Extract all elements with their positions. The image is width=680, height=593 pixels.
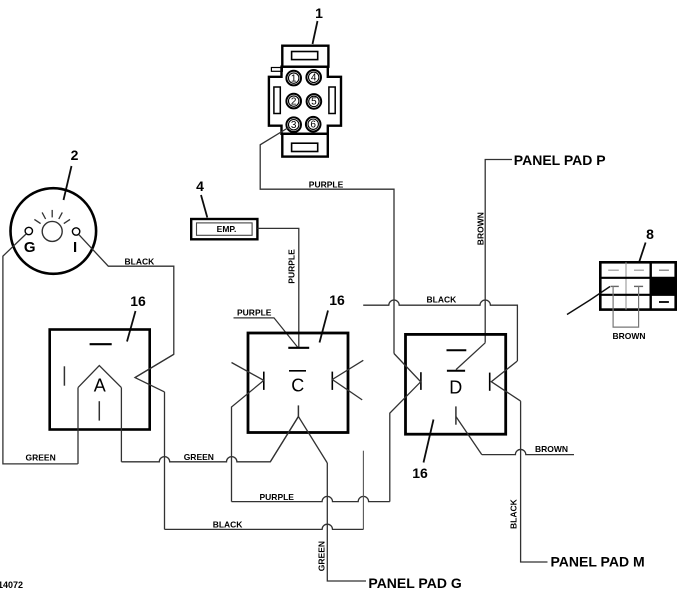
svg-text:1: 1 xyxy=(315,5,323,21)
leader to key switch xyxy=(64,166,72,200)
pin 6 xyxy=(306,117,321,132)
module A xyxy=(50,330,174,430)
wire PURPLE bottom rail xyxy=(232,496,390,501)
pin 5 xyxy=(307,94,322,109)
wire connector 8 brown U loop xyxy=(613,286,639,327)
svg-text:A: A xyxy=(94,376,106,396)
svg-text:D: D xyxy=(449,377,462,397)
terminal I xyxy=(72,228,79,235)
svg-text:16: 16 xyxy=(329,292,345,308)
wire BLACK bottom rail xyxy=(165,524,364,529)
svg-text:BLACK: BLACK xyxy=(427,295,458,305)
pin 2 xyxy=(286,94,301,109)
svg-text:I: I xyxy=(73,239,77,256)
svg-text:PURPLE: PURPLE xyxy=(309,180,344,190)
wire I terminal to module A (black) xyxy=(79,235,174,378)
wire module D left arrow xyxy=(390,354,421,502)
svg-text:BLACK: BLACK xyxy=(125,257,156,267)
pin 4 xyxy=(306,70,321,85)
svg-text:4: 4 xyxy=(311,73,317,84)
wire GREEN right rail xyxy=(121,417,298,462)
svg-text:PANEL PAD G: PANEL PAD G xyxy=(368,575,461,591)
svg-text:2: 2 xyxy=(71,147,79,163)
svg-text:6: 6 xyxy=(310,119,316,130)
node PANEL PAD P xyxy=(485,160,512,343)
leader purple label to C top pin xyxy=(234,318,299,348)
svg-text:G: G xyxy=(24,239,36,256)
leader to module D xyxy=(424,420,434,463)
leader to connector 1 xyxy=(313,21,318,44)
leader to module A xyxy=(127,311,136,342)
svg-text:5: 5 xyxy=(311,97,317,108)
svg-text:BROWN: BROWN xyxy=(476,212,486,245)
wire module C left arrow xyxy=(232,363,264,502)
pin 3 xyxy=(286,117,301,132)
wire module C bottom legs xyxy=(270,417,327,464)
module D xyxy=(406,334,506,434)
svg-text:EMP.: EMP. xyxy=(217,224,237,234)
svg-text:PURPLE: PURPLE xyxy=(237,307,272,317)
node PANEL PAD G wire xyxy=(327,463,366,581)
svg-text:BLACK: BLACK xyxy=(213,520,244,530)
leader to EMP xyxy=(201,195,207,218)
svg-text:C: C xyxy=(291,375,304,395)
svg-text:16: 16 xyxy=(130,293,146,309)
connector U1 (6-pin) xyxy=(269,46,341,157)
svg-text:GREEN: GREEN xyxy=(26,453,56,463)
svg-text:8: 8 xyxy=(646,226,654,242)
module C xyxy=(248,333,348,433)
wire module D right arrow xyxy=(491,361,520,401)
EMP module U4 xyxy=(191,219,257,239)
svg-text:BROWN: BROWN xyxy=(535,444,568,454)
svg-text:2: 2 xyxy=(291,96,297,107)
svg-text:3: 3 xyxy=(291,120,297,131)
svg-text:4: 4 xyxy=(196,178,204,194)
wire EMP to module C (purple) xyxy=(257,228,298,347)
terminal G xyxy=(25,227,32,234)
node PANEL PAD M wire xyxy=(521,401,548,562)
pin 1 xyxy=(286,71,301,86)
svg-text:BROWN: BROWN xyxy=(613,331,646,341)
connector U8 (pad grid) xyxy=(600,262,675,309)
svg-text:BLACK: BLACK xyxy=(509,498,519,529)
wire connector pin3 to purple net xyxy=(260,128,394,354)
key switch S2 xyxy=(11,188,97,274)
wire G terminal to green rail xyxy=(3,234,78,464)
svg-text:GREEN: GREEN xyxy=(184,452,214,462)
svg-text:PURPLE: PURPLE xyxy=(287,249,297,284)
wire module D bottom pin to brown xyxy=(456,417,482,455)
wire black stub riser xyxy=(362,451,364,530)
svg-text:14072: 14072 xyxy=(0,580,23,590)
wire module A left leg xyxy=(77,388,79,464)
svg-text:GREEN: GREEN xyxy=(316,541,326,571)
wire BROWN rail xyxy=(482,449,574,454)
leader to module C xyxy=(320,311,329,343)
svg-text:PANEL PAD P: PANEL PAD P xyxy=(514,152,606,168)
wire module A right arrow to black rail xyxy=(164,392,166,530)
wire module A right leg xyxy=(120,388,122,462)
svg-text:1: 1 xyxy=(291,73,297,84)
leader to connector 8 xyxy=(639,243,646,263)
svg-text:PURPLE: PURPLE xyxy=(260,492,295,502)
leader to connector 8 pin xyxy=(567,287,610,315)
wire BLACK mid rail xyxy=(363,300,517,361)
svg-text:16: 16 xyxy=(412,465,428,481)
wire module C right arrow stubs xyxy=(332,360,363,400)
svg-text:PANEL PAD M: PANEL PAD M xyxy=(551,554,645,570)
